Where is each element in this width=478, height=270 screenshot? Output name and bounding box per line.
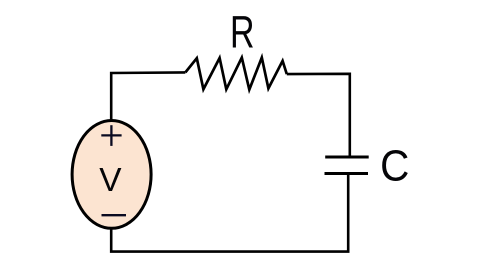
resistor R1 zigzag body — [185, 58, 286, 90]
svg-text:V: V — [99, 162, 122, 199]
wire top-right corner (resistor to capacitor) — [287, 74, 350, 157]
minus terminal mark — [102, 214, 127, 216]
capacitor C1 bottom plate — [325, 172, 369, 175]
svg-text:C: C — [380, 141, 409, 190]
voltage source V1 ellipse — [72, 120, 151, 228]
svg-text:R: R — [230, 6, 255, 57]
wire bottom loop (capacitor to source) — [111, 174, 348, 252]
wire top-left corner (source to resistor) — [111, 72, 185, 121]
capacitor C1 top plate — [325, 156, 369, 159]
plus terminal mark — [101, 125, 121, 146]
